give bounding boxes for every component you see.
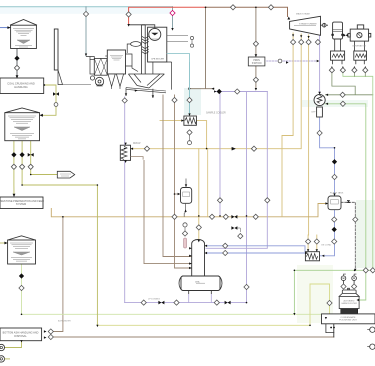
pipe brown da feed2 — [163, 95, 192, 257]
svg-text:LP DOSING: LP DOSING — [148, 299, 160, 301]
letdown box B2 — [248, 57, 265, 66]
out circles right edge — [367, 327, 375, 349]
gauge I2 — [352, 274, 357, 284]
drum riser to header — [129, 25, 155, 29]
conveyor incline — [126, 88, 166, 93]
pipe extraction 1 — [282, 33, 293, 216]
condenser C1 — [314, 94, 325, 117]
pipe brown bottom long — [51, 336, 334, 338]
pipe blue vessel to hx4 — [320, 210, 335, 256]
svg-text:STATION: STATION — [252, 62, 262, 65]
pipe teal drop to airheater — [85, 7, 87, 56]
vessel V2 blowdown tank — [181, 188, 192, 204]
vessel V3 flash tank — [328, 196, 341, 210]
tint band bottom right — [297, 265, 333, 323]
deaerator drum — [179, 276, 222, 291]
generator GEN — [348, 25, 371, 41]
pipe olive tank circuit — [43, 85, 56, 115]
burner oval — [131, 42, 141, 47]
instrument stack gauge — [183, 223, 187, 227]
pipe purple hx3 riser — [124, 97, 126, 303]
box B3 feeder — [0, 197, 43, 209]
valves tank1 line — [15, 56, 19, 60]
stack — [54, 29, 91, 85]
ID fan — [90, 76, 103, 86]
arrow into T1 — [7, 26, 10, 29]
pipe condenser cw out — [325, 104, 366, 300]
gen stand2 — [355, 41, 365, 51]
svg-text:PRDS: PRDS — [253, 60, 260, 62]
level capsule — [184, 238, 187, 248]
pipe blue condensate — [320, 117, 335, 196]
pipe hx green drains3 — [353, 73, 355, 77]
gauge I1 — [341, 274, 346, 284]
pipe hx green drains1 — [326, 73, 373, 95]
svg-text:GS COND: GS COND — [321, 245, 332, 247]
valve magenta — [170, 10, 175, 15]
drain dots — [330, 327, 332, 329]
pipe purple bottom y303 — [125, 302, 247, 304]
valve instrument — [182, 231, 187, 236]
valve economizer — [187, 98, 192, 103]
pipe hx3 feed tan — [160, 120, 184, 122]
pipe tank2 out2 — [22, 141, 97, 326]
svg-text:MAIN STEAM: MAIN STEAM — [296, 13, 310, 16]
circle under HX2 — [188, 141, 192, 145]
svg-text:CARBON FILTER: CARBON FILTER — [341, 302, 357, 305]
valves olive riser — [53, 92, 59, 96]
valves green y270 — [363, 268, 368, 273]
pipe blue upper to deaerator — [206, 246, 305, 252]
hx HX3 BFP cooler — [120, 145, 130, 160]
valve purple x220 — [217, 198, 222, 203]
pipe tank1 inlet blue — [0, 27, 10, 29]
boiler bank box — [148, 27, 167, 62]
pipe letdown dashed side — [267, 60, 318, 62]
pipe extraction 4 — [316, 235, 318, 249]
tank T1 coal silo — [10, 20, 37, 49]
pump P1 — [0, 344, 5, 350]
superheater coil 1 — [142, 36, 149, 43]
pipe tank2 out1 — [13, 141, 15, 194]
valves purple header — [217, 89, 221, 93]
box B1 crusher — [0, 78, 44, 94]
vessel dark band — [341, 309, 358, 314]
tank T3 limestone silo — [8, 236, 36, 264]
pipe brown da feed3 — [175, 95, 192, 268]
tint band right mid — [356, 200, 375, 268]
valve tan line y149 — [144, 146, 149, 151]
pipe extraction 3 — [307, 35, 310, 249]
valves hx drains — [329, 68, 334, 73]
small circles pair left — [190, 36, 193, 39]
valves purple y303 — [141, 300, 146, 305]
air heater X boxes — [94, 58, 107, 75]
pipe tan header y216 — [51, 204, 327, 217]
ESP hoppers — [108, 74, 124, 89]
pipe teal top header — [0, 6, 173, 8]
svg-text:DISPOSAL: DISPOSAL — [14, 335, 27, 338]
valve main steam — [126, 12, 131, 17]
pipe hx green drains4 — [364, 73, 366, 77]
hx HX4 gland cooler — [305, 252, 319, 261]
svg-text:GENERATOR: GENERATOR — [352, 45, 366, 48]
deaerator legs — [189, 291, 212, 295]
svg-text:ASH WATER: ASH WATER — [58, 320, 71, 323]
teal outlet stubs — [167, 36, 188, 42]
valves tank2 outlets — [12, 153, 16, 157]
pipe pump olive — [5, 341, 22, 348]
valves V3 drop — [332, 174, 337, 179]
vessel V4 filter — [339, 288, 359, 308]
pipe tan drop2 — [207, 149, 209, 217]
svg-text:STEAM TURBINE: STEAM TURBINE — [299, 23, 317, 26]
valves gauges — [341, 284, 346, 289]
valves hx4 inlets — [306, 239, 311, 244]
pipe main steam red — [129, 7, 206, 24]
pipe green y270 — [294, 269, 375, 271]
tint band bottom — [302, 100, 368, 107]
pipe brown to letdown box — [255, 7, 257, 57]
pipe hx green drains2 — [343, 73, 373, 270]
svg-text:SYSTEM: SYSTEM — [16, 203, 26, 206]
valves tan header y216 — [172, 214, 177, 219]
hx box HX-A — [331, 51, 345, 60]
pipe tank2 out3 — [31, 141, 58, 175]
valve top teal drops — [83, 11, 88, 16]
valve small actuated — [231, 226, 237, 230]
flag connector F1 — [57, 171, 74, 178]
pipe extraction 2 — [131, 34, 302, 149]
tint band top-left — [0, 7, 171, 14]
pipe turbine exhaust — [319, 35, 321, 94]
pipe teal drop boiler inlet — [172, 7, 174, 28]
pump P2 — [0, 356, 5, 362]
pipe green x294 drop — [293, 270, 295, 314]
svg-text:DMCW: DMCW — [133, 143, 141, 145]
superheater coil 2 — [142, 46, 149, 53]
valves on red header — [230, 5, 235, 10]
pipe hx2 out tan — [196, 121, 206, 149]
svg-text:SAMPLE COOLER: SAMPLE COOLER — [206, 112, 226, 115]
valve olive bottom right — [327, 300, 332, 305]
pipe purple header y91.5 — [215, 91, 268, 93]
tint band economizer — [184, 88, 201, 115]
valves turbine extractions — [291, 40, 296, 45]
hx HX2 sample cooler — [184, 116, 197, 125]
svg-text:CONDENSATE: CONDENSATE — [340, 316, 356, 319]
svg-text:CFB BOILER: CFB BOILER — [151, 59, 164, 61]
svg-text:CEP: CEP — [311, 112, 316, 114]
valve dashed drain — [353, 217, 358, 222]
turbine ST1 — [290, 16, 321, 35]
pipe tank3 drop — [21, 264, 23, 314]
pipe tan deaerator drop — [198, 149, 200, 240]
bottom funnel — [128, 62, 171, 90]
pipe purple drop x267.3 — [206, 92, 267, 249]
valve blue drop — [244, 284, 249, 289]
ESP box — [107, 50, 125, 74]
pipe olive bottom y324 — [97, 284, 329, 325]
gearbox G1 — [332, 22, 344, 39]
svg-text:POLISHING UNIT: POLISHING UNIT — [339, 320, 357, 322]
pipe brown letdown continue — [255, 66, 257, 88]
ducts — [86, 54, 138, 72]
pipe platform drain2 — [326, 317, 334, 333]
tank T2 day bin — [5, 108, 40, 141]
valves blue to deaerator — [223, 243, 228, 248]
svg-text:HANDLING: HANDLING — [14, 85, 27, 89]
pipe tank3 in — [0, 242, 8, 244]
furnace riser column — [142, 25, 146, 74]
valves tank3 outlet — [19, 274, 23, 278]
pipe brown blowdown drop — [51, 217, 63, 332]
pipe lightgreen y314 — [22, 313, 322, 315]
air heater small box — [90, 60, 94, 74]
box B4 ash handling — [0, 328, 42, 341]
pipe teal economizer drop — [189, 63, 191, 117]
tiny labels — [58, 13, 366, 323]
boiler bottom drops — [126, 88, 153, 98]
pipe blue hx4 to deaerator — [206, 252, 305, 254]
steam drum — [149, 28, 161, 40]
pipe purple drop x246.5 — [246, 92, 248, 303]
pipe platform drain — [333, 324, 335, 337]
valve purple x267 — [265, 198, 270, 203]
valve condensate mid — [317, 130, 322, 135]
valve deaerator top — [196, 225, 201, 230]
hx box HX-B — [354, 51, 367, 60]
svg-text:DEA: DEA — [195, 281, 200, 284]
da inlet arrows — [189, 247, 192, 269]
turbine tap arrowheads — [292, 34, 310, 38]
valves condenser lines — [340, 92, 345, 97]
pipe brown spray water drop — [190, 7, 215, 88]
coupling — [322, 23, 326, 27]
platform box — [322, 314, 375, 324]
deaerator column — [192, 240, 205, 277]
pipe tank1 drop — [16, 49, 18, 79]
gen stand — [335, 39, 341, 51]
valve hx2 bottom — [187, 130, 192, 135]
pipe vessel dashed drain — [341, 202, 355, 268]
svg-text:FLASH TANK: FLASH TANK — [330, 192, 344, 195]
pipe brown da feed1 — [144, 160, 192, 263]
valves letdown — [253, 41, 258, 46]
pipe purple drop x220 — [219, 92, 221, 216]
